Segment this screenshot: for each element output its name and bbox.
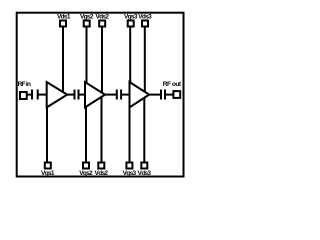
- svg-text:Vgs3: Vgs3: [124, 14, 138, 21]
- svg-text:RF in: RF in: [18, 81, 31, 88]
- svg-text:Vds1: Vds1: [57, 14, 71, 21]
- svg-text:Vds3: Vds3: [138, 170, 152, 177]
- svg-text:RF out: RF out: [163, 81, 182, 88]
- svg-text:Vds2: Vds2: [95, 170, 109, 177]
- svg-text:Vds2: Vds2: [95, 14, 109, 21]
- svg-text:Vgs2: Vgs2: [80, 14, 94, 21]
- svg-text:Vgs1: Vgs1: [41, 170, 55, 177]
- svg-text:Vds3: Vds3: [138, 14, 152, 21]
- svg-text:Vgs2: Vgs2: [79, 170, 93, 177]
- svg-text:Vgs3: Vgs3: [123, 170, 137, 177]
